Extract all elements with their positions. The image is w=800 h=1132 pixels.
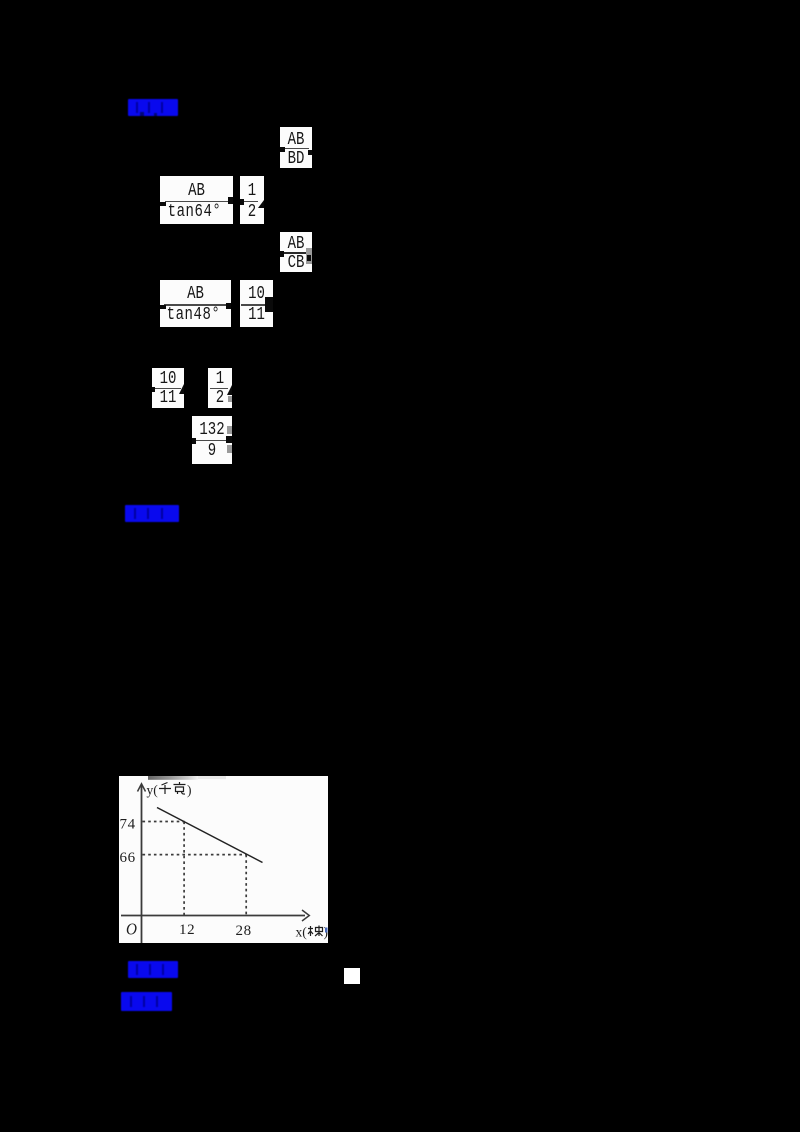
fraction AB/BD <box>280 127 312 168</box>
dotted line y=74 <box>143 821 185 823</box>
y axis arrow <box>138 784 146 792</box>
vertical dotted x=12 <box>183 822 185 916</box>
dotted line y=66 <box>143 854 247 856</box>
fraction 10/11 second <box>152 368 184 408</box>
blue label [jieda] top <box>128 99 178 116</box>
svg-text:): ) <box>187 783 192 798</box>
blue label [kaodian] <box>128 961 178 978</box>
x axis <box>121 915 305 917</box>
svg-text:O: O <box>126 921 137 939</box>
svg-text:y(: y( <box>147 783 159 798</box>
x axis arrow <box>302 910 309 921</box>
fraction 1/2 <box>240 176 264 224</box>
svg-text:28: 28 <box>236 923 252 939</box>
fraction AB/tan64 <box>160 176 233 224</box>
y axis <box>141 785 143 943</box>
tiny blue dot <box>325 928 328 933</box>
fraction 132/9 <box>192 416 232 464</box>
fake CJK ke2 <box>308 926 323 937</box>
svg-text:x(: x( <box>296 925 308 940</box>
blue label [fenxi] <box>121 992 172 1011</box>
blue label [dianping] <box>125 505 179 522</box>
fake CJK ke <box>174 782 186 794</box>
svg-text:12: 12 <box>179 922 195 938</box>
svg-text:66: 66 <box>120 850 136 866</box>
white square <box>344 968 360 984</box>
descending line <box>157 808 263 863</box>
fraction 1/2 second <box>208 368 232 408</box>
graph image box <box>119 776 328 943</box>
fraction 10/11 <box>240 280 273 327</box>
fraction AB/CB <box>280 232 312 272</box>
fraction AB/tan48 <box>160 280 231 327</box>
fake CJK qian <box>159 783 171 795</box>
vertical dotted x=28 <box>245 855 247 915</box>
svg-text:74: 74 <box>120 817 136 833</box>
